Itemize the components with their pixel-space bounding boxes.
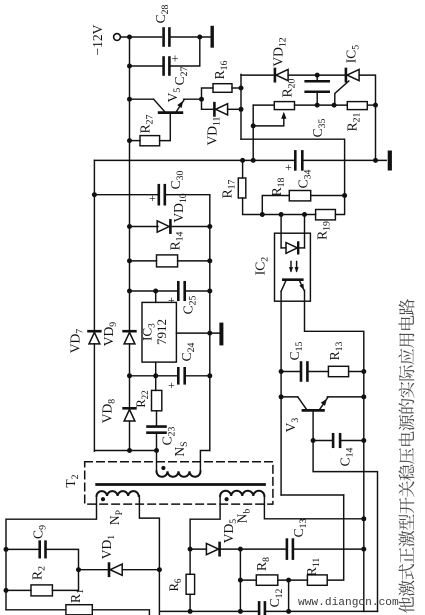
svg-text:VD7: VD7: [68, 329, 86, 354]
IC2 LED diode: [281, 247, 286, 249]
wire R20 row: [253, 104, 274, 106]
wire IC5 right and down: [359, 75, 375, 160]
capacitor C24: [177, 368, 180, 383]
svg-text:R8: R8: [254, 557, 272, 571]
capacitor C12: [258, 602, 261, 615]
wire C27 row: [130, 65, 164, 67]
svg-text:V3: V3: [283, 418, 301, 433]
diode VD11: [213, 103, 216, 115]
resistor R16: [213, 84, 232, 93]
wire R20 branch down: [252, 105, 254, 160]
wire Np right lead: [139, 496, 159, 615]
winding Np: [97, 491, 139, 496]
capacitor C23: [148, 425, 166, 428]
transistor V3: [303, 409, 323, 412]
diode VD1: [108, 564, 111, 576]
wire R18 right: [311, 195, 345, 197]
resistor R13: [328, 366, 348, 376]
wire R27 to bus: [130, 140, 141, 142]
wire C23 down: [156, 433, 158, 451]
wire bus between VD9 VD8: [129, 344, 131, 408]
resistor R1: [66, 605, 92, 615]
optocoupler IC2 box: [275, 233, 311, 301]
wire IC3 output pin: [155, 362, 157, 390]
capacitor C13: [286, 540, 289, 559]
wire V5 emitter to node: [184, 98, 202, 100]
wire R14 right: [178, 260, 210, 262]
wire IC3 input pin: [155, 291, 157, 302]
wire VD1 right: [122, 569, 159, 571]
wire VD5 node down: [239, 549, 241, 611]
wire R8 node down: [288, 580, 290, 611]
wire C9 right down: [46, 549, 78, 569]
diode VD8: [124, 407, 136, 410]
winding Nb: [220, 491, 264, 496]
capacitor C9: [38, 542, 41, 558]
wire C27 right up to C28 node: [170, 37, 200, 66]
wire C14 right: [340, 440, 364, 442]
resistor R6: [186, 574, 195, 594]
wire bus below VD8: [129, 421, 131, 451]
capacitor C30: [158, 185, 161, 204]
wire R16 right: [232, 87, 241, 89]
wire right node vertical: [240, 74, 242, 139]
svg-text:T2: T2: [63, 474, 81, 487]
diode VD10: [169, 220, 172, 232]
wire VD11 right: [228, 108, 241, 110]
IC2 phototransistor: [283, 278, 302, 281]
svg-text:R6: R6: [167, 578, 183, 591]
wire C30 row: [94, 194, 158, 196]
svg-text:R22: R22: [134, 390, 150, 407]
wire bottom row to transformer: [94, 450, 156, 452]
wire R1 row: [6, 609, 66, 611]
svg-text:C24: C24: [179, 342, 197, 361]
wire C24 row: [130, 375, 179, 377]
svg-text:C15: C15: [287, 341, 305, 360]
resistor R17: [242, 160, 244, 178]
resistor R19: [316, 210, 336, 220]
svg-text:C9: C9: [31, 525, 49, 539]
wire -12V to C28: [120, 36, 161, 38]
IC2 pins bottom: [280, 291, 282, 301]
wire VD12 to C35 node: [288, 74, 345, 76]
svg-text:VD10: VD10: [171, 193, 189, 222]
svg-text:VD12: VD12: [271, 37, 289, 66]
svg-text:7912: 7912: [154, 319, 169, 345]
resistor R27: [140, 136, 160, 146]
wire V3 base down: [312, 412, 314, 441]
wire feedback to R18: [241, 139, 345, 195]
svg-text:C35: C35: [310, 118, 328, 137]
capacitor C25: [177, 282, 180, 300]
wire bottom right row: [160, 610, 258, 612]
Nb phase dot: [225, 497, 229, 501]
wire C15 to R13: [308, 371, 329, 373]
transformer T2 dashed box: [85, 462, 273, 504]
svg-text:+: +: [172, 52, 179, 66]
wire V5 base down: [160, 114, 171, 141]
wire V3 collector: [281, 396, 298, 398]
wire left vertical line upper: [93, 160, 95, 331]
wire V3 base extension: [313, 441, 377, 612]
ground (top): [210, 28, 213, 47]
transformer core: [97, 483, 265, 486]
wire Nb right lead: [264, 496, 363, 519]
wire right column vertical: [209, 195, 211, 451]
svg-text:R18: R18: [269, 177, 287, 196]
wire R14 row: [130, 260, 157, 262]
resistor R11: [307, 575, 327, 585]
wire R2 row: [6, 589, 31, 591]
svg-text:www.diangon.com: www.diangon.com: [298, 597, 399, 609]
diode VD9 on bus: [124, 330, 136, 333]
resistor R2: [31, 585, 52, 596]
IC2 light arrows: [290, 262, 292, 272]
svg-text:R21: R21: [345, 112, 363, 131]
Ns phase dot: [161, 466, 165, 470]
wire Ns left lead: [156, 451, 158, 472]
svg-text:R11: R11: [304, 558, 322, 577]
thyristor IC5: [345, 69, 348, 81]
svg-text:+: +: [285, 160, 292, 174]
capacitor C14: [332, 434, 335, 447]
svg-text:IC2: IC2: [253, 257, 271, 276]
svg-text:C34: C34: [296, 169, 314, 188]
svg-text:R27: R27: [138, 114, 156, 133]
wire Np left lead: [6, 496, 97, 610]
resistor R18: [289, 191, 310, 201]
svg-text:C30: C30: [168, 170, 186, 189]
wire R20 to R21 row: [295, 104, 348, 106]
wire top-right row: [241, 74, 274, 76]
svg-text:R20: R20: [280, 78, 298, 97]
wire C34 row left: [94, 159, 295, 161]
R20 wiper arrow: [253, 117, 284, 126]
svg-text:C13: C13: [291, 518, 309, 537]
wire node to R16: [202, 88, 214, 99]
svg-text:R17: R17: [220, 179, 238, 198]
svg-text:C28: C28: [153, 4, 171, 23]
wire R8 row: [240, 579, 256, 581]
svg-text:VD11: VD11: [205, 116, 223, 145]
svg-text:NP: NP: [107, 509, 125, 525]
wire V3 emitter right: [327, 396, 364, 398]
wire IC2 left to R11 column: [281, 494, 344, 496]
wire main bus upper: [129, 37, 131, 331]
svg-text:IC5: IC5: [344, 45, 362, 64]
capacitor C15: [300, 363, 303, 381]
svg-text:+: +: [149, 191, 156, 205]
potentiometer R20: [274, 102, 294, 110]
svg-text:VD5: VD5: [221, 519, 239, 544]
wire C25 row: [130, 290, 179, 292]
wire C9 row: [6, 548, 39, 550]
wire VD10 row: [130, 226, 159, 228]
wire C24 right: [185, 375, 210, 377]
svg-text:+: +: [168, 378, 175, 392]
node A (bus top): [127, 35, 132, 40]
wire C14 row: [313, 440, 333, 442]
svg-text:R14: R14: [168, 231, 186, 250]
svg-text:C27: C27: [172, 66, 190, 85]
svg-text:V5: V5: [165, 88, 183, 103]
wire IC2 left pin down: [280, 301, 282, 495]
svg-text:−12V: −12V: [90, 24, 105, 55]
wire C30 right: [166, 194, 210, 196]
svg-text:R16: R16: [212, 60, 230, 79]
svg-text:R13: R13: [327, 341, 345, 360]
wire C28 to ground: [170, 36, 211, 38]
wire node to VD11: [202, 99, 214, 109]
wire IC3 gnd pin: [176, 332, 219, 334]
diode VD12: [274, 69, 277, 81]
svg-text:C23: C23: [160, 426, 178, 445]
wire IC2 right pin down: [305, 301, 364, 611]
capacitor C34: [294, 151, 297, 169]
svg-text:R19: R19: [315, 221, 333, 240]
wire R13 right: [349, 371, 364, 373]
svg-text:VD9: VD9: [101, 322, 119, 347]
title text: [398, 299, 414, 613]
wire V5 collector from bus: [130, 98, 154, 100]
wire R2 right up: [52, 570, 78, 591]
wire R11 right up: [327, 495, 344, 580]
wire R22 to C23: [156, 411, 158, 426]
wire C12 right: [266, 610, 378, 612]
wire R21 right: [367, 104, 375, 106]
wire R19 right link: [335, 196, 344, 215]
op-amp U1 regulator IC3 box: [142, 302, 176, 362]
resistor R8: [256, 575, 278, 585]
wire VD5 leads: [190, 548, 206, 550]
IC2 LED pins: [280, 215, 282, 248]
ground (right of C34): [388, 153, 392, 169]
capacitor C28: [162, 29, 165, 46]
wire R8 to R11: [278, 579, 308, 581]
wire Ns right lead: [200, 451, 209, 472]
resistor R14: [157, 255, 178, 267]
wire R17 down to row: [243, 198, 316, 215]
wire C15 row: [281, 371, 301, 373]
svg-text:NS: NS: [172, 441, 190, 456]
Np phase dot: [101, 497, 105, 501]
svg-text:VD1: VD1: [99, 535, 117, 560]
wire C25 right: [185, 290, 210, 292]
ground (IC3): [219, 325, 223, 344]
svg-text:C12: C12: [267, 588, 285, 607]
wire R6 leads: [189, 549, 191, 574]
diode VD5: [218, 543, 221, 555]
wire VD1 row: [79, 569, 109, 571]
wire left vertical line lower: [93, 344, 95, 451]
svg-text:C25: C25: [181, 295, 199, 314]
wire C34 row right: [303, 159, 387, 161]
svg-text:R2: R2: [30, 566, 48, 580]
capacitor C35: [316, 75, 318, 81]
svg-text:+: +: [168, 293, 175, 307]
wire R1 right down: [92, 610, 149, 615]
svg-text:C14: C14: [338, 447, 356, 466]
resistor R21: [347, 102, 367, 110]
wire R18 row: [262, 196, 289, 215]
svg-text:VD8: VD8: [100, 399, 118, 424]
wire Nb left lead: [190, 496, 220, 549]
terminal -12V: [114, 34, 121, 41]
diode VD7: [88, 330, 100, 333]
winding Ns: [157, 471, 201, 477]
wire VD10 right: [170, 226, 209, 228]
resistor R22: [152, 390, 162, 410]
capacitor C27: [162, 58, 165, 75]
wire C13 right: [294, 548, 364, 550]
transistor V5: [159, 111, 182, 114]
